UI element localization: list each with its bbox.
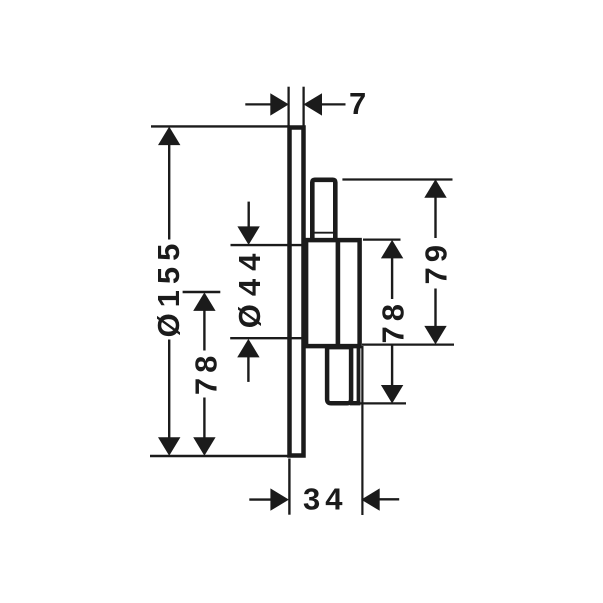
svg-text:7: 7: [349, 86, 371, 121]
dim 78 left: center tick: [183, 291, 221, 293]
dim 7 arrow left: [270, 93, 289, 115]
dim 79 arrow top: [424, 179, 446, 198]
dim 34: left extension line: [288, 459, 290, 515]
dim 155 arrow top: [158, 127, 180, 146]
svg-text:78: 78: [188, 351, 223, 395]
dim 78 right arrow bottom: [381, 385, 403, 404]
dim 155: line upper segment: [168, 130, 170, 240]
dim 78 right: line upper segment: [391, 255, 393, 299]
dim 44: top shaft: [247, 202, 249, 228]
dim 34 arrow right: [361, 488, 380, 510]
top sleeve inner end line: [315, 232, 334, 234]
dim 79: line upper segment: [434, 195, 436, 238]
dim 78 right: top extension line: [363, 238, 401, 240]
dim 44: bottom shaft: [247, 355, 249, 382]
dim 79: top extension line: [342, 178, 452, 180]
dim 79: line lower segment: [434, 289, 436, 330]
svg-text:34: 34: [303, 482, 347, 517]
dim 78 left: line lower segment: [203, 398, 205, 453]
svg-text:79: 79: [419, 240, 454, 284]
body internal line: [336, 240, 341, 346]
bottom valve sleeve: [327, 347, 351, 403]
dim 7: left shaft: [245, 103, 273, 105]
bottom cap joining segment: [350, 401, 360, 405]
dim 78 right: line lower segment: [391, 345, 393, 389]
dim 7: right shaft: [320, 103, 346, 105]
dim 155: line lower segment: [168, 340, 170, 453]
dim 78 left arrow bottom: [193, 437, 215, 456]
dim 34: left shaft: [249, 498, 273, 500]
mixer body: [306, 240, 360, 346]
dim 7: extension line right: [302, 87, 304, 126]
dim 7: extension line left: [287, 87, 289, 126]
dim 44: top extension line: [231, 244, 304, 246]
dim 44: bottom extension line: [230, 337, 303, 339]
dim 78 left: line upper segment: [203, 295, 205, 351]
dim 155: bottom extension line: [150, 455, 290, 457]
svg-text:Ø155: Ø155: [151, 238, 186, 338]
body edge continuation: [357, 345, 361, 404]
dim 34: right extension line: [361, 346, 363, 515]
dim 78 right: bottom extension line: [354, 402, 406, 404]
dim 34 arrow left: [270, 488, 289, 510]
top valve sleeve: [312, 180, 335, 242]
svg-text:Ø44: Ø44: [232, 246, 267, 329]
dim 155: top extension line: [151, 125, 290, 127]
dim 78 left arrow top: [193, 292, 215, 311]
dim 155 arrow bottom: [158, 437, 180, 456]
dim 79 arrow bottom: [424, 326, 446, 345]
dim 78 right arrow top: [381, 240, 403, 259]
dim 44 arrow top: [237, 226, 259, 245]
svg-text:78: 78: [375, 299, 410, 343]
dim 34: right shaft: [377, 498, 399, 500]
dim 44 arrow bottom: [237, 339, 259, 358]
dim 79: bottom extension line: [362, 343, 454, 345]
wall plate (side view): [290, 128, 304, 456]
dim 7 arrow right: [304, 93, 323, 115]
